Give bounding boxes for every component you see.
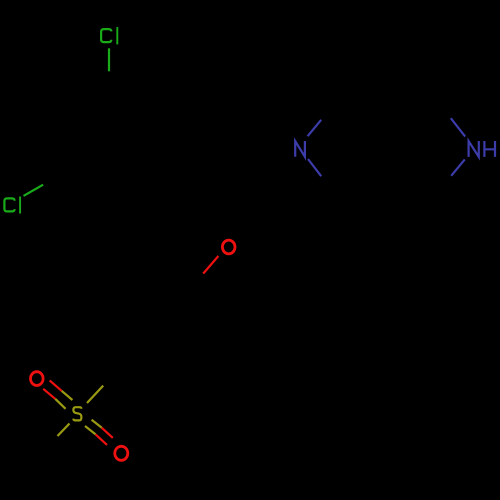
bond C-O1 (red half): [203, 256, 218, 274]
bond N1-C down-right (blue half): [308, 159, 321, 176]
double bond S1=O2 line 1 sulfur half (olive): [62, 391, 73, 400]
double bond S1=O2 line 2 oxygen half (red): [43, 389, 55, 399]
atom label O3 (sulfonyl O lower-right): [115, 446, 128, 460]
bond N2-C up-left (blue half): [451, 118, 465, 136]
atom label O2 (sulfonyl O upper-left): [31, 372, 44, 386]
atom label Cl1 (top chlorine): [101, 27, 117, 44]
bond C1-Cl1 (green half): [108, 48, 110, 71]
bond S1-C(aryl) sulfur half (olive): [87, 386, 103, 403]
bond N2-C down-left (blue half): [451, 159, 465, 175]
atom label Cl2 (left chlorine): [4, 197, 20, 214]
bond S1-CH3 sulfur half (olive): [58, 424, 70, 437]
bond C3-Cl2 (green half): [24, 185, 44, 196]
atom label N1 (spiro ring nitrogen, left): [295, 141, 305, 157]
atom label S1 (sulfonyl sulfur): [73, 407, 81, 420]
double bond S1=O3 line 2 sulfur half (olive): [85, 426, 96, 434]
atom label N2H (ring NH, right): [469, 141, 495, 157]
atom label O1 (ether oxygen): [222, 240, 235, 254]
double bond S1=O2 line 2 sulfur half (olive): [55, 399, 65, 409]
double bond S1=O3 line 2 oxygen half (red): [96, 434, 107, 445]
double bond S1=O2 line 1 oxygen half (red): [50, 380, 62, 390]
double bond S1=O3 line 1 oxygen half (red): [102, 428, 113, 438]
bond N1-C up-right (blue half): [308, 120, 322, 136]
double bond S1=O3 line 1 sulfur half (olive): [92, 420, 102, 428]
